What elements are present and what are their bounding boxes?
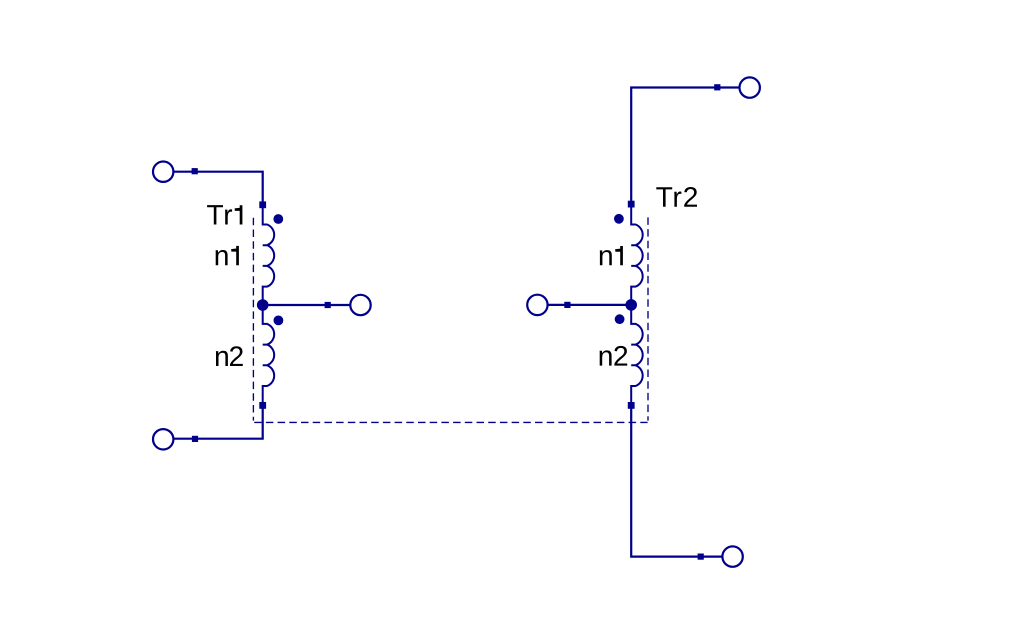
port P6 (bottom-right terminal) bbox=[722, 546, 742, 566]
transformer Tr1 center-tap junction dot bbox=[257, 299, 269, 311]
transformer Tr1 phase dot (n1) bbox=[273, 214, 283, 224]
port P4 (top-right terminal) bbox=[740, 77, 760, 97]
transformer Tr1 winding n1 bbox=[263, 205, 274, 305]
label Tr2 bbox=[656, 187, 697, 207]
transformer Tr1 winding n2 bbox=[263, 305, 274, 405]
transformer Tr2 winding n1 bbox=[631, 204, 642, 305]
node square on P6 wire bbox=[698, 554, 704, 560]
transformer Tr2 winding n2 bbox=[631, 305, 642, 406]
label Tr1 bbox=[207, 205, 242, 224]
transformer Tr1 phase dot (n2) bbox=[274, 316, 284, 326]
port P1 (top-left terminal) bbox=[153, 162, 173, 182]
label n1 (Tr2) bbox=[600, 246, 623, 265]
transformer Tr2 center-tap junction dot bbox=[625, 299, 637, 311]
transformer Tr2 phase dot (n1) bbox=[614, 214, 624, 224]
transformer Tr2 pin 1 square bbox=[628, 201, 635, 208]
node square on P3 wire bbox=[192, 436, 198, 442]
transformer Tr2 phase dot (n2) bbox=[615, 314, 625, 324]
wire from Tr1 pin 2 to port P3 bbox=[174, 405, 263, 438]
transformer Tr2 core (dashed) bbox=[647, 217, 649, 420]
label n1 (Tr1) bbox=[216, 246, 239, 265]
port P2 (middle-left tap terminal) bbox=[350, 295, 370, 315]
node square on P1 wire bbox=[192, 168, 198, 174]
transformer Tr2 pin 2 square bbox=[628, 402, 635, 409]
transformer Tr1 pin 2 square bbox=[259, 402, 266, 409]
node square on P4 wire bbox=[714, 84, 720, 90]
node square on tap wire bbox=[325, 302, 331, 308]
node square on P5 wire bbox=[564, 302, 570, 308]
wire from Tr1 center tap to port P2 bbox=[263, 304, 351, 306]
port P5 (middle tap terminal of Tr2) bbox=[527, 295, 547, 315]
wire from port P1 to Tr1 pin 1 bbox=[173, 172, 262, 205]
wire from port P4 to Tr2 pin 1 bbox=[631, 88, 739, 205]
port P3 (bottom-left terminal) bbox=[153, 429, 173, 449]
label n2 (Tr1) bbox=[216, 346, 243, 366]
wire from port P5 to Tr2 center tap bbox=[548, 304, 632, 306]
transformer Tr1 core (dashed) bbox=[253, 218, 647, 423]
transformer Tr1 pin 1 square bbox=[259, 201, 266, 208]
wire from Tr2 pin 2 to port P6 bbox=[631, 405, 723, 556]
label n2 (Tr2) bbox=[600, 346, 628, 366]
